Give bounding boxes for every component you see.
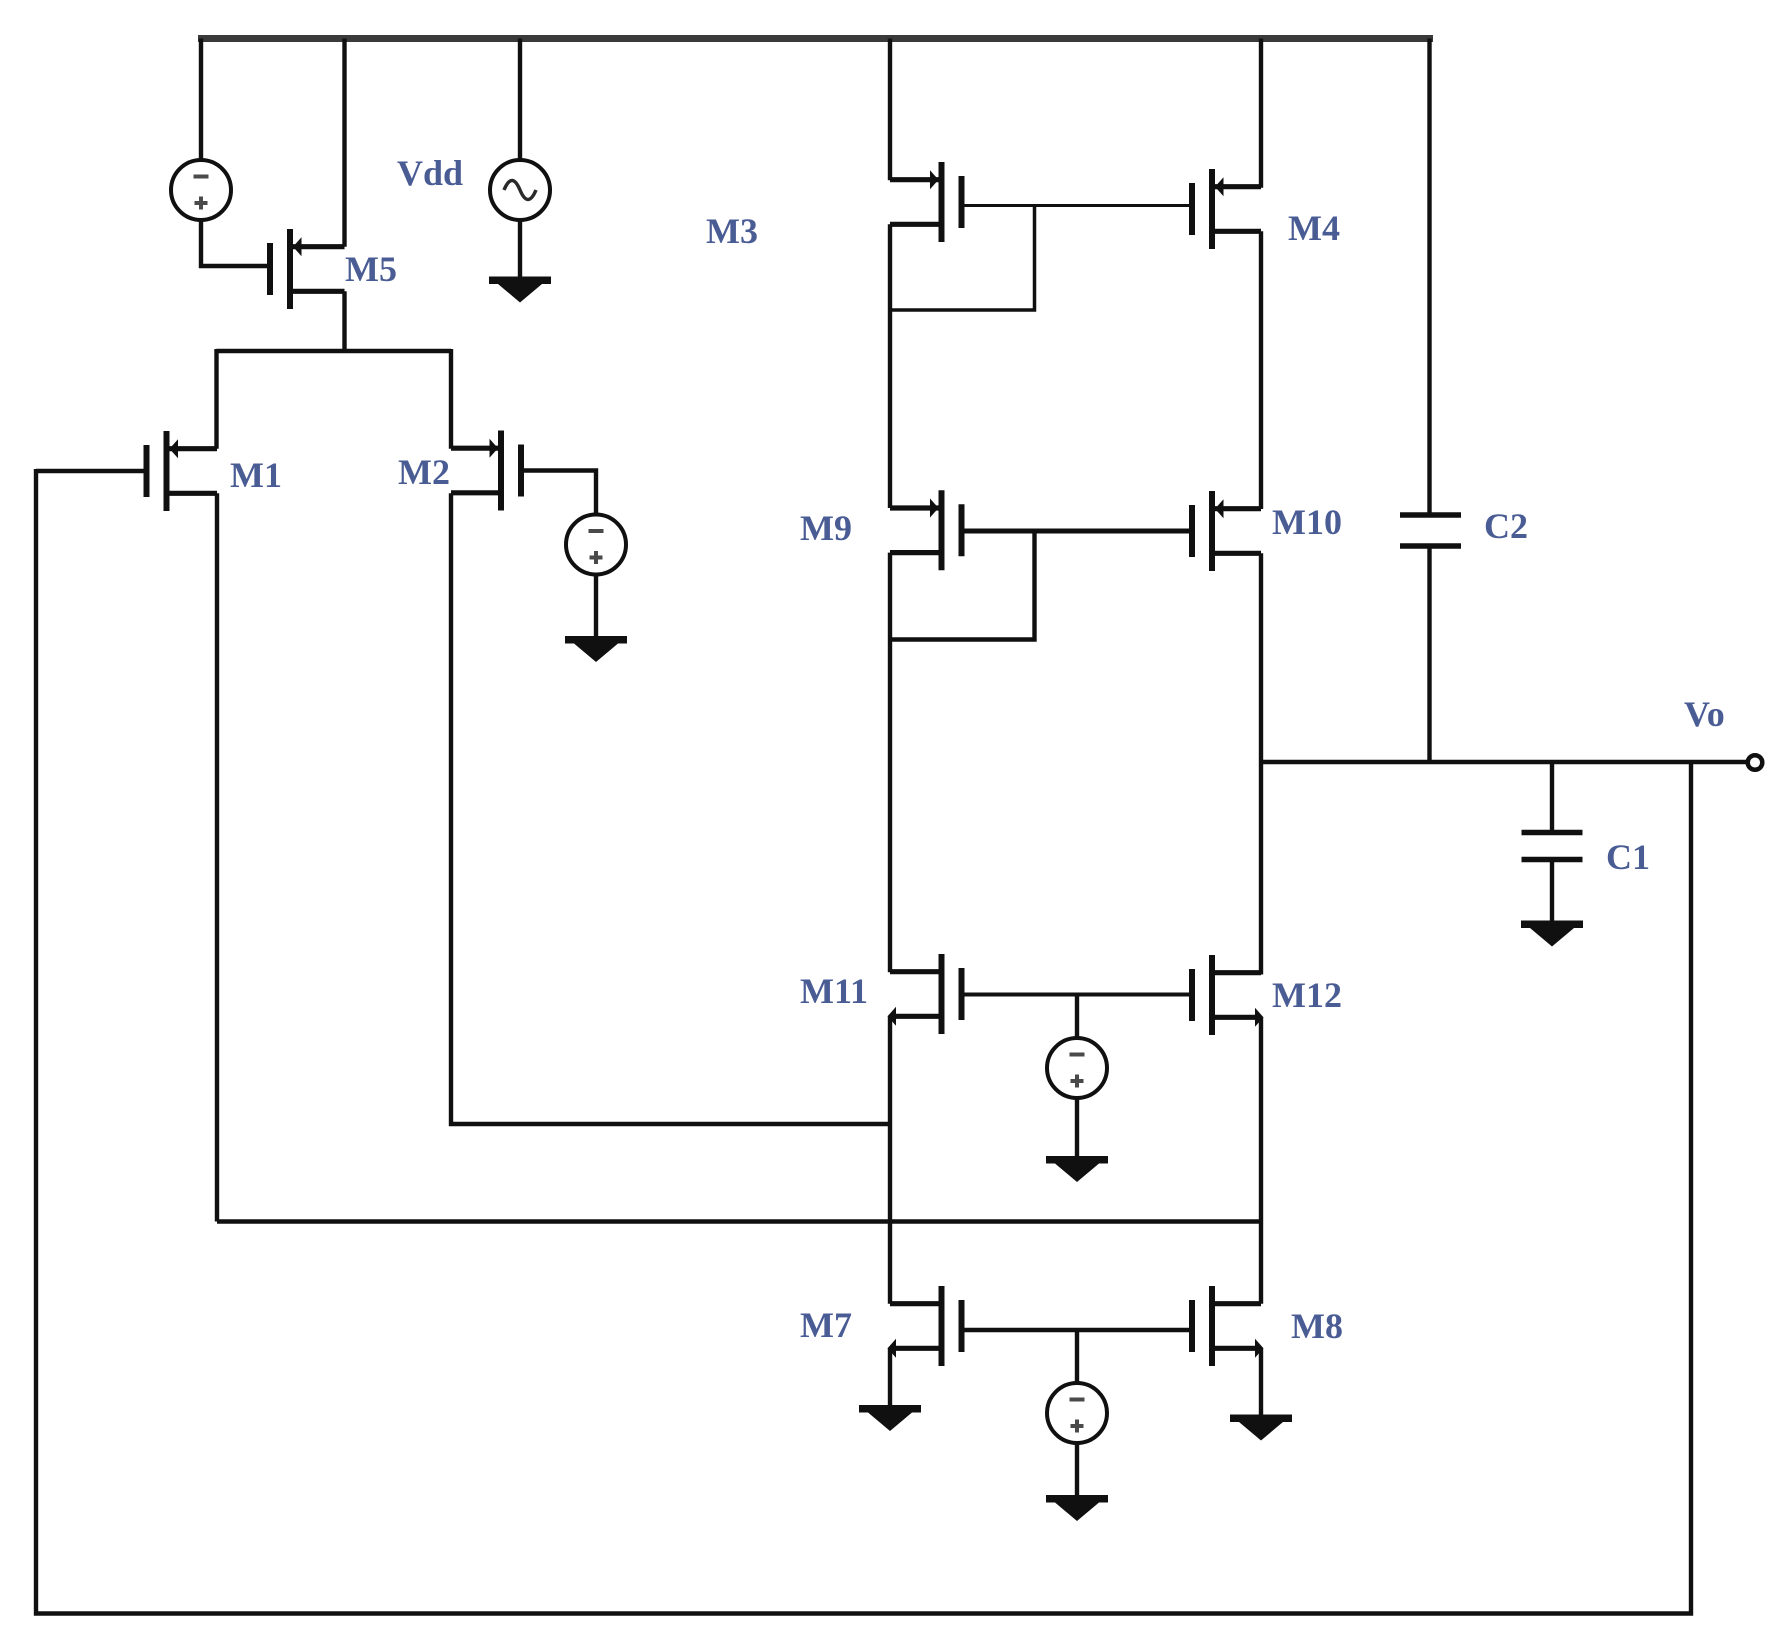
- wire: rail to M5 source: [342, 39, 346, 247]
- svg-text:M5: M5: [345, 249, 397, 289]
- transistor M11: [888, 954, 962, 1034]
- wire: V2 to ground: [594, 574, 598, 638]
- wire: V4 to ground: [1075, 1442, 1079, 1496]
- wire: gate line to V3: [1075, 995, 1079, 1040]
- wire: C2 to output node: [1427, 546, 1431, 762]
- ground (below C1): [1521, 921, 1583, 947]
- wire: C1 to ground: [1550, 860, 1554, 923]
- transistor M1: [147, 431, 218, 511]
- wire: rail to Vdd source: [518, 39, 522, 162]
- ground (below V4): [1046, 1495, 1108, 1521]
- transistor M8: [1192, 1286, 1264, 1366]
- wire: node to M2 drain: [449, 349, 453, 449]
- transistor M2: [451, 431, 521, 511]
- transistor M7: [888, 1286, 962, 1366]
- transistor M3: [890, 162, 962, 242]
- wire: M12 source to M8 drain: [1259, 1017, 1263, 1303]
- node Vo terminal: [1748, 755, 1763, 770]
- svg-text:M10: M10: [1272, 502, 1342, 542]
- ground (below V3): [1046, 1156, 1108, 1182]
- svg-text:M9: M9: [800, 508, 852, 548]
- wire: node to M1 drain: [214, 349, 218, 449]
- svg-text:Vdd: Vdd: [397, 153, 463, 193]
- wire: M2 source down to M11 drain node: [451, 493, 890, 1124]
- transistor M4: [1192, 169, 1261, 249]
- svg-text:M3: M3: [706, 211, 758, 251]
- svg-text:Vo: Vo: [1684, 694, 1725, 734]
- wire: M1 source down: [215, 493, 219, 1221]
- wire: diff pair common rail: [217, 349, 452, 353]
- ground (below V2): [565, 636, 627, 662]
- wire: M3 drain to M9 source: [888, 224, 892, 508]
- wire: M4 drain to M10 source: [1259, 231, 1263, 509]
- wire: M11-M12 gate line: [961, 993, 1191, 997]
- voltage source V1 (M5 gate bias): [171, 160, 231, 220]
- wire: M8 source to ground: [1259, 1348, 1263, 1416]
- capacitor C2: [1400, 515, 1461, 546]
- wire: M1 gate lead: [36, 469, 147, 473]
- svg-text:M1: M1: [230, 455, 282, 495]
- transistor M5: [270, 229, 345, 309]
- ground (below M7): [859, 1405, 921, 1431]
- wire: gate line to V4: [1075, 1330, 1079, 1384]
- wire: M9-M10 gate line: [961, 529, 1191, 534]
- svg-text:M4: M4: [1288, 208, 1340, 248]
- wire: Vo to C1: [1550, 762, 1554, 833]
- voltage source V2 (M2 input bias): [566, 515, 626, 575]
- wire: M5 drain down to diff pair node: [342, 291, 346, 351]
- wire: second stage tail line: [217, 1219, 1261, 1224]
- svg-text:M12: M12: [1272, 975, 1342, 1015]
- wire: Vdd supply top rail: [198, 35, 1433, 42]
- wire: M3-M4 gate line: [961, 204, 1191, 207]
- transistor M12: [1192, 955, 1264, 1035]
- ground (below Vdd source): [489, 277, 551, 303]
- wire: feedback loop (M1 gate / bottom / Vo): [36, 469, 1691, 1614]
- wire: V1 to M5 gate: [201, 219, 270, 266]
- wire: M3 gate-drain tie: [890, 206, 1035, 311]
- wire: output node Vo: [1261, 760, 1747, 764]
- svg-text:M7: M7: [800, 1305, 852, 1345]
- capacitor C1: [1522, 833, 1583, 860]
- wire: V3 to ground: [1075, 1097, 1079, 1157]
- transistor M9: [890, 490, 962, 570]
- wire: M2 gate to V2: [521, 471, 596, 516]
- ground (below M8): [1230, 1415, 1292, 1441]
- wire: M7-M8 gate line: [961, 1328, 1191, 1333]
- wire: rail to M3 source: [888, 39, 892, 181]
- voltage source V4 (tail bias): [1047, 1383, 1107, 1443]
- svg-text:C1: C1: [1606, 837, 1650, 877]
- transistor M10: [1192, 491, 1261, 571]
- AC source Vdd: [490, 160, 550, 220]
- svg-text:C2: C2: [1484, 506, 1528, 546]
- wire: M10 drain to M12 drain (output node): [1259, 553, 1263, 974]
- wire: M9 drain to M11 drain: [888, 553, 892, 973]
- wire: M7 source to ground: [888, 1348, 892, 1406]
- wire: Vdd source to ground: [518, 219, 522, 278]
- svg-text:M2: M2: [398, 452, 450, 492]
- wire: M11 source to M7 drain: [888, 1016, 892, 1303]
- wire: rail to C2: [1427, 39, 1431, 516]
- wire: rail to M4 source: [1259, 39, 1263, 188]
- svg-text:M11: M11: [800, 971, 868, 1011]
- wire: rail to source V1: [199, 39, 203, 162]
- voltage source V3 (cascode bias): [1047, 1038, 1107, 1098]
- svg-text:M8: M8: [1291, 1306, 1343, 1346]
- wire: M9 gate tie-down: [890, 531, 1035, 640]
